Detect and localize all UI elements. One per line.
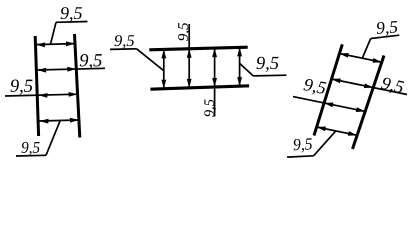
double-headed vertical arrow 2 (middle group) [188,49,190,88]
leader with shelf, top label 9,5 (left group) [51,22,57,44]
double-headed vertical arrow 1 (middle group) [163,49,165,88]
leader with shelf, right label 9,5 (middle group) [253,74,286,77]
bottom rotated label 9,5 (middle group) [204,99,216,116]
right extension line (left group) [75,34,80,138]
dimension row 2 (left group), extends right to label [37,68,105,70]
double-headed vertical arrow 3 (middle group) [214,48,216,87]
double-headed vertical arrow 4 (middle group) [239,47,241,86]
leader below line for rotated bottom label (middle group) [214,87,216,117]
top horizontal line (middle group) [149,47,247,50]
dimension row 2 (right group), extends right to label [332,79,408,95]
dimension row 3 (left group), extends left to label [5,94,78,96]
leader with shelf, left label 9,5 (middle group) [110,48,137,51]
right label 9,5 (left group) [80,54,102,69]
right label 9,5 (right group), rotated [380,77,404,96]
bottom horizontal line (middle group) [150,86,249,89]
left extension line (left group) [35,36,38,136]
left label 9,5 (right group), rotated [303,78,327,97]
leader with shelf, bottom label 9,5 (right group) [314,131,336,156]
left slanted extension line (right group) [314,44,342,135]
leader with shelf, top label 9,5 (right group) [362,39,370,59]
leader above line for rotated top label (middle group) [188,24,190,49]
leader with shelf, bottom label 9,5 (left group) [46,121,60,155]
left label 9,5 (left group) [10,80,32,95]
right slanted extension line (right group) [353,56,385,150]
dimension row 4 (right group) with outward arrows [317,127,358,135]
dimension row 1 (left group) with outward arrows [36,44,75,45]
dimension row 4 (left group) with outward arrows [39,120,79,121]
dimension row 3 (right group), extends left to label [293,97,365,112]
top rotated label 9,5 (middle group) [178,23,190,41]
dimension row 1 (right group) with outward arrows [339,54,381,63]
